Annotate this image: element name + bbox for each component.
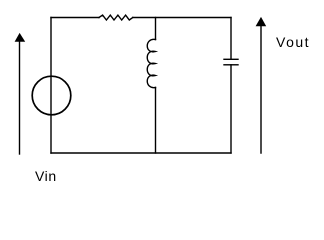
wire middle branch top (155, 18, 157, 40)
capacitor plate bottom (224, 64, 238, 66)
source V1 (circle on left branch) (32, 76, 71, 115)
inductor (middle branch) (147, 39, 155, 87)
wire right branch bottom (230, 65, 232, 153)
wire top-left segment (51, 17, 99, 19)
arrow Vin shaft (19, 41, 21, 154)
resistor (series, top) (99, 15, 133, 20)
capacitor plate top (224, 58, 238, 60)
wire left branch (50, 18, 52, 154)
svg-text:Vout: Vout (276, 34, 310, 50)
wire bottom (51, 152, 231, 154)
svg-text:Vin: Vin (35, 168, 57, 184)
wire right branch top (230, 18, 232, 60)
arrow Vout head (256, 17, 267, 26)
wire middle branch bottom (155, 88, 157, 154)
wire top-right segment (133, 17, 231, 19)
arrow Vin head (15, 33, 26, 42)
arrow Vout shaft (260, 26, 262, 153)
